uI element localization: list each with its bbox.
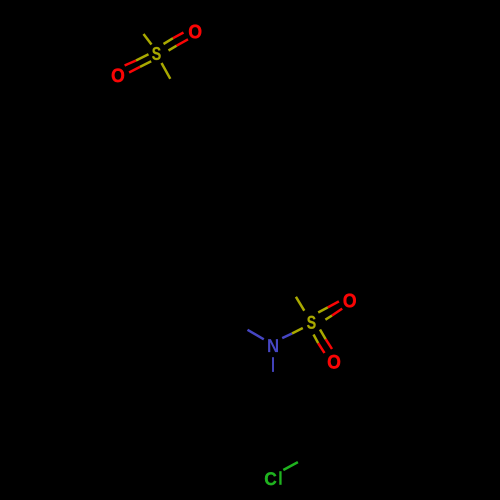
bond S2-N yellow half — [292, 328, 303, 334]
bond N-CH3 (N half, blue) — [248, 330, 264, 340]
bond chain CH2-S2 (S half, yellow) — [296, 297, 304, 311]
bond S1=O_a line1 yellow half — [164, 38, 174, 44]
bond S2-N blue half — [282, 334, 292, 339]
bond S1=O_b line2 red half — [129, 67, 140, 73]
bond S1=O_b line1 yellow half — [136, 54, 149, 60]
bond S1-CH2 chain (S half, yellow) — [162, 63, 171, 79]
bond S2=O_c line2 yellow half — [325, 316, 332, 320]
atom O_b label — [112, 68, 124, 82]
bond S2=O_d line2 red half — [326, 339, 332, 349]
bond S2=O_c line2 red half — [332, 309, 342, 316]
bond CH2-Cl (Cl half, green) — [283, 462, 298, 470]
atom N label — [268, 339, 278, 352]
bond CH3-S1 (S half, yellow) — [144, 34, 152, 45]
bond N-CH2 down (N half, blue) — [272, 357, 274, 372]
bond S2=O_c line1 yellow half — [318, 307, 328, 312]
bond S1=O_b line1 red half — [125, 61, 136, 66]
atom O_c label — [344, 294, 356, 308]
bond S2=O_c line1 red half — [328, 301, 339, 307]
atom Cl label — [265, 472, 276, 485]
bond S1=O_a line2 yellow half — [169, 46, 177, 51]
bond S1=O_b line2 yellow half — [140, 61, 151, 67]
atom O_a label — [189, 25, 201, 39]
bond S2=O_d line2 yellow half — [320, 330, 326, 340]
bond S1=O_a line2 red half — [177, 39, 188, 45]
bond S2=O_d line1 red half — [318, 343, 324, 353]
atom O_d label — [328, 355, 340, 369]
bond S2=O_d line1 yellow half — [314, 335, 319, 344]
atom S1 label — [152, 47, 160, 60]
bond S1=O_a line1 red half — [173, 33, 184, 39]
atom S2 label — [307, 316, 315, 329]
